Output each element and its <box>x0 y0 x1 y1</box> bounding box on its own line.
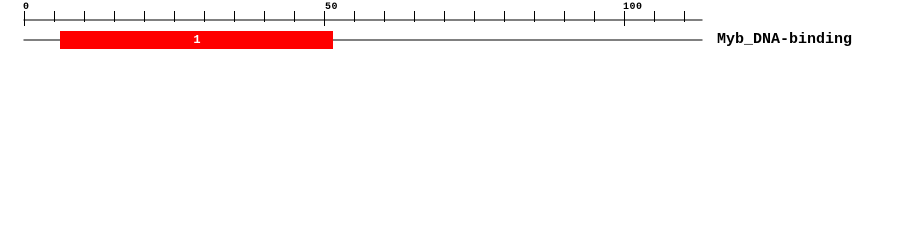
ruler major tick 100 <box>624 11 626 26</box>
svg-text:1: 1 <box>193 33 200 47</box>
ruler major tick 50 <box>324 11 326 26</box>
domain box Myb_DNA-binding (red) <box>60 31 333 49</box>
sequence line <box>24 39 703 41</box>
svg-text:0: 0 <box>23 2 29 13</box>
svg-text:Myb_DNA-binding: Myb_DNA-binding <box>717 31 852 48</box>
svg-text:100: 100 <box>623 2 643 13</box>
ruler baseline <box>24 19 703 21</box>
svg-text:50: 50 <box>325 2 338 13</box>
ruler minor ticks (every 5 residues) <box>55 11 685 22</box>
ruler major tick 0 <box>24 11 26 26</box>
